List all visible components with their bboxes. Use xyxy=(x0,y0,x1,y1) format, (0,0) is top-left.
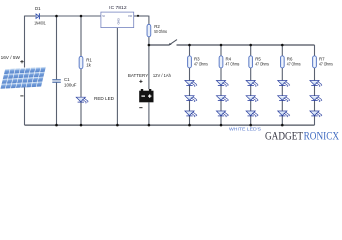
wire top rail left segment xyxy=(25,15,36,17)
wire R1 to red LED xyxy=(80,69,82,97)
wire LED row1 to row2 col 4 xyxy=(281,85,283,95)
LED D6 white col 2 row 1 xyxy=(216,81,229,87)
node junction after IC output xyxy=(137,15,139,17)
wire C1 branch lower xyxy=(56,83,58,126)
resistor R4 xyxy=(219,56,240,68)
node junction bottom rail battery xyxy=(148,124,151,127)
wire R3 column top xyxy=(189,45,191,56)
svg-text:RONICX: RONICX xyxy=(304,129,340,143)
svg-text:47 Ohms: 47 Ohms xyxy=(287,62,301,67)
svg-text:47 Ohms: 47 Ohms xyxy=(194,62,208,67)
wire R4 to LED row1 xyxy=(220,68,222,81)
wire R4 column top xyxy=(220,45,222,56)
label white leds xyxy=(229,127,261,132)
wire R1 branch upper xyxy=(80,16,82,56)
wire LED row3 to bottom rail col 5 xyxy=(314,116,316,125)
wire LED row3 to bottom rail col 3 xyxy=(250,116,252,125)
wire IC ground pin xyxy=(116,28,118,126)
wire bottom rail xyxy=(25,124,315,126)
node junction mid rail col 3 xyxy=(249,44,252,47)
wire LED row2 to row3 col 1 xyxy=(189,101,191,111)
wire LED row2 to row3 col 3 xyxy=(250,101,252,111)
LED D3 white col 1 row 1 xyxy=(185,81,198,87)
wire LED row3 to bottom rail col 2 xyxy=(220,116,222,125)
wire LED row2 to row3 col 5 xyxy=(314,101,316,111)
svg-text:GND: GND xyxy=(117,18,121,24)
capacitor C1 xyxy=(52,77,76,87)
wire battery branch upper xyxy=(148,45,150,89)
wire R7 column top xyxy=(314,45,316,56)
wire LED row1 to row2 col 5 xyxy=(314,85,316,95)
LED D14 white col 4 row 3 xyxy=(278,111,291,117)
wire battery branch lower xyxy=(148,102,150,125)
LED D8 white col 2 row 3 xyxy=(216,111,229,117)
resistor R7 xyxy=(313,56,334,68)
wire top rail middle segment xyxy=(40,15,101,17)
LED D4 white col 1 row 2 xyxy=(185,96,198,102)
wire LED row2 to row3 col 2 xyxy=(220,101,222,111)
wire R7 to LED row1 xyxy=(314,68,316,81)
solar panel PV1 xyxy=(0,67,45,89)
LED D7 white col 2 row 2 xyxy=(216,96,229,102)
wire R6 column top xyxy=(281,45,283,56)
node junction bottom rail IC xyxy=(116,124,119,127)
wire solar panel branch upper xyxy=(24,16,26,68)
LED D2 red xyxy=(76,96,114,103)
node junction mid rail battery xyxy=(148,44,151,47)
svg-text:47 Ohms: 47 Ohms xyxy=(226,62,240,67)
battery BT1 xyxy=(128,73,172,108)
svg-text:D1: D1 xyxy=(35,6,41,11)
wire LED row3 to bottom rail col 1 xyxy=(189,116,191,125)
wire LED row1 to row2 col 2 xyxy=(220,85,222,95)
node junction top rail R1 xyxy=(80,15,83,18)
wire LED row1 to row2 col 3 xyxy=(250,85,252,95)
node junction bottom rail col 2 xyxy=(220,124,223,127)
svg-text:1k: 1k xyxy=(86,62,91,67)
label solar panel rating xyxy=(1,55,21,60)
wire mid rail left of switch xyxy=(149,44,170,46)
svg-text:BATTERY: BATTERY xyxy=(128,73,148,78)
node junction mid rail col 2 xyxy=(220,44,223,47)
logo gadgetronicx xyxy=(265,129,339,143)
LED D16 white col 5 row 2 xyxy=(310,96,323,102)
wire R6 to LED row1 xyxy=(281,68,283,81)
label solar plus terminal xyxy=(20,60,23,63)
wire mid rail right of switch xyxy=(177,44,315,46)
resistor R5 xyxy=(249,56,270,68)
wire R2 to mid rail xyxy=(148,37,150,45)
node junction bottom rail LED xyxy=(80,124,83,127)
resistor R6 xyxy=(280,56,301,68)
wire solar panel branch lower xyxy=(24,87,26,126)
wire top rail right segment xyxy=(133,15,148,17)
svg-text:12V / 1Ah: 12V / 1Ah xyxy=(153,73,172,78)
resistor R1 xyxy=(79,56,92,69)
svg-text:GADGET: GADGET xyxy=(265,129,304,143)
LED D17 white col 5 row 3 xyxy=(310,111,323,117)
diode D1 xyxy=(34,6,46,25)
switch SW1 xyxy=(168,40,177,46)
LED D13 white col 4 row 2 xyxy=(278,96,291,102)
wire red LED to bottom rail xyxy=(80,102,82,125)
LED D10 white col 3 row 2 xyxy=(246,96,259,102)
wire R5 column top xyxy=(250,45,252,56)
svg-text:IC 7812: IC 7812 xyxy=(109,5,127,11)
node junction mid rail col 4 xyxy=(281,44,284,47)
resistor R2 xyxy=(147,24,168,37)
wire LED row1 to row2 col 1 xyxy=(189,85,191,95)
svg-text:R2: R2 xyxy=(154,24,160,29)
node junction bottom rail col 3 xyxy=(249,124,252,127)
LED D11 white col 3 row 3 xyxy=(246,111,259,117)
svg-text:16V / 5W: 16V / 5W xyxy=(1,55,21,60)
svg-text:RED LED: RED LED xyxy=(94,96,114,101)
wire R5 to LED row1 xyxy=(250,68,252,81)
node junction top rail C1 xyxy=(55,15,58,18)
node junction bottom rail C1 xyxy=(55,124,58,127)
wire R2 drop from top rail xyxy=(148,16,150,25)
wire C1 branch upper xyxy=(56,16,58,79)
svg-text:50 Ohms: 50 Ohms xyxy=(154,29,167,34)
LED D15 white col 5 row 1 xyxy=(310,81,323,87)
LED D9 white col 3 row 1 xyxy=(246,81,259,87)
svg-text:47 Ohms: 47 Ohms xyxy=(255,62,269,67)
svg-text:VI: VI xyxy=(102,14,105,18)
wire LED row3 to bottom rail col 4 xyxy=(281,116,283,125)
svg-text:WHITE LED'S: WHITE LED'S xyxy=(229,127,261,132)
IC U1 voltage regulator 7812 xyxy=(101,5,134,28)
LED D5 white col 1 row 3 xyxy=(185,111,198,117)
wire LED row2 to row3 col 4 xyxy=(281,101,283,111)
svg-text:100uF: 100uF xyxy=(64,82,77,87)
wire R3 to LED row1 xyxy=(189,68,191,81)
svg-text:47 Ohms: 47 Ohms xyxy=(319,62,333,67)
node junction mid rail col 1 xyxy=(188,44,191,47)
node junction bottom rail col 4 xyxy=(281,124,284,127)
resistor R3 xyxy=(188,56,209,68)
svg-text:1N4001: 1N4001 xyxy=(34,21,46,26)
LED D12 white col 4 row 1 xyxy=(278,81,291,87)
node junction bottom rail col 1 xyxy=(188,124,191,127)
label solar minus terminal xyxy=(20,95,23,97)
